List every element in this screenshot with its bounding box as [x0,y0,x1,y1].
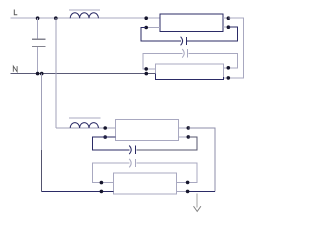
node dot LP3 left pin1 [103,126,107,130]
inductor L2 [70,123,98,128]
node junction dot N/C1 [36,72,40,76]
lamp LP4 pin stubs [101,182,187,191]
node dot LP2 right pin1 [227,66,231,70]
node dot LP4 left pin1 [100,181,104,185]
wire C1 top stub [37,18,39,39]
node dot LP3 right pin2 [187,135,191,139]
wire starter S1 right loop [187,27,238,41]
inductor L1 [70,13,98,18]
wire starter S2 right loop [188,53,237,68]
wire starter S3 left loop [93,137,130,150]
starter S3 bar plate [135,146,137,154]
node junction dot L/C1 [36,16,40,20]
lamp LP4 [114,173,177,194]
starter S2 curved plate [182,49,184,58]
wire C1 bottom stub [37,47,39,73]
starter S4 curved plate [129,159,131,168]
wire starter S4 left loop [93,163,130,183]
node dot LP1 left pin2 [144,26,148,30]
starter S3 curved plate [129,146,131,155]
lamp LP2 [155,64,223,80]
wire series link LP1-LP2 right [228,18,243,78]
lamp LP3 pin stubs [178,128,188,137]
node dot LP2 right pin2 [227,76,231,80]
lamp LP1 pin stubs [146,18,228,27]
node dot LP2 left pin1 [144,67,148,71]
wire LP4 pin2 to link [188,190,216,192]
lamp LP3 [116,119,179,140]
wire starter S2 left loop [143,53,182,69]
inductor L2 core bar [69,117,101,119]
wire N into LP2 and around bottom [156,74,224,80]
node dot LP3 right pin1 [187,126,191,130]
starter S4 bar plate [135,159,137,167]
node L label [14,10,17,15]
wire bottom feeder horizontal [56,127,116,129]
node dot LP2 left pin2 [145,72,149,76]
node dot LP4 right pin2 [186,190,190,194]
wire N drop rail upper [41,74,43,150]
wire starter S3 right loop [137,137,197,150]
node dot LP3 left pin2 [103,135,107,139]
lamp LP2 pin stubs [146,68,228,78]
node N label [13,66,17,72]
node junction dot L/feeder [54,16,58,20]
starter S2 bar plate [187,49,189,57]
inductor L1 core bar [69,9,100,11]
node dot LP4 left pin2 [100,190,104,194]
node dot LP1 right pin1 [227,16,231,20]
wire N line [11,73,156,75]
starter S1 curved plate [181,37,183,46]
wire starter S4 right loop [137,163,198,182]
ground arrow [194,206,201,211]
node junction dot N/rail [40,72,44,76]
wire series link LP3-LP4 right [188,128,215,191]
ground stem [196,193,198,207]
lamp LP1 [160,14,223,31]
starter S1 bar plate [185,37,187,45]
node dot LP1 left pin1 [144,16,148,20]
node dot LP1 right pin2 [227,25,231,29]
node dot LP4 right pin1 [186,181,190,185]
wire N bottom rail [42,191,114,193]
capacitor C1 [32,39,45,46]
wire L line [11,17,161,19]
wire N drop rail lower [41,150,43,192]
wire starter S1 left loop [141,28,181,42]
wire L feeder drop [55,18,57,128]
